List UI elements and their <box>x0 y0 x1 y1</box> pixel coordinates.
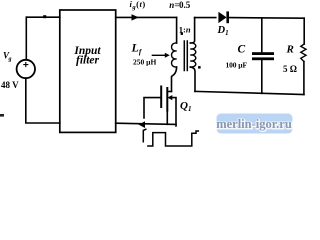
transformer secondary polarity dot <box>198 66 201 69</box>
resistor R zigzag <box>301 44 306 62</box>
resistor R bottom lead <box>303 62 305 95</box>
gate drive waveform <box>148 131 198 146</box>
transformer primary polarity dot <box>181 33 183 35</box>
svg-text:ig(t): ig(t) <box>130 0 146 11</box>
MOSFET Q1 gate lead <box>144 98 161 118</box>
plus sign of source <box>24 63 28 67</box>
wire source top lead <box>25 17 27 60</box>
MOSFET Q1 body stub wire <box>170 98 177 126</box>
capacitor C top lead <box>261 18 263 52</box>
svg-text:Vg: Vg <box>3 51 12 63</box>
transformer primary top lead <box>176 17 178 43</box>
MOSFET Q1 drain jog <box>167 91 171 93</box>
svg-text:5 Ω: 5 Ω <box>283 64 297 74</box>
svg-text:n=0.5: n=0.5 <box>169 0 191 10</box>
svg-text:merlin-igor.ru: merlin-igor.ru <box>216 117 292 131</box>
MOSFET Q1 source lead <box>166 111 168 125</box>
arrowhead ig(t) <box>132 14 139 20</box>
input filter box <box>60 10 116 132</box>
svg-text:R: R <box>286 43 294 55</box>
transformer secondary top lead <box>190 18 194 43</box>
transformer secondary winding <box>190 43 195 67</box>
svg-text:Lf: Lf <box>131 41 143 57</box>
MOSFET Q1 channel bar <box>166 88 168 111</box>
svg-text:filter: filter <box>76 55 100 67</box>
speck on left edge <box>0 114 4 117</box>
svg-text:Q1: Q1 <box>180 100 191 113</box>
svg-text:D1: D1 <box>217 25 229 37</box>
junction dot on top rail <box>43 15 46 18</box>
capacitor C bottom lead <box>261 60 263 93</box>
gate drive stub below rail <box>143 129 146 142</box>
resistor R top lead <box>303 18 305 44</box>
transformer primary bottom lead <box>172 67 177 92</box>
svg-text:48 V: 48 V <box>1 80 19 90</box>
transformer secondary bottom lead <box>190 67 195 91</box>
wire source bottom lead <box>26 78 60 123</box>
gate arrowhead on rail <box>139 121 145 128</box>
capacitor C bottom plate <box>252 57 274 60</box>
wire top-right rail to diode <box>195 17 216 19</box>
Lf arrow <box>152 54 166 56</box>
svg-text:1:n: 1:n <box>179 24 191 34</box>
MOSFET Q1 gate plate <box>160 87 162 108</box>
watermark merlin-igor.ru <box>217 114 293 134</box>
voltage source Vg <box>17 60 35 78</box>
svg-text:100 µF: 100 µF <box>226 61 248 70</box>
capacitor C top plate <box>252 52 274 55</box>
diode D1 cathode bar <box>226 11 229 23</box>
transformer primary winding <box>172 43 177 67</box>
wire top-mid rail to transformer <box>116 16 177 18</box>
svg-text:250 µH: 250 µH <box>133 58 156 67</box>
svg-text:C: C <box>238 44 246 56</box>
wire bottom-right rail <box>195 91 304 94</box>
wire bottom-mid rail <box>116 123 176 124</box>
wire top-left rail <box>26 16 60 18</box>
MOSFET Q1 body arrowhead <box>168 95 173 100</box>
wire diode to output <box>229 17 304 20</box>
diode D1 <box>218 12 226 23</box>
transformer core <box>184 41 187 71</box>
